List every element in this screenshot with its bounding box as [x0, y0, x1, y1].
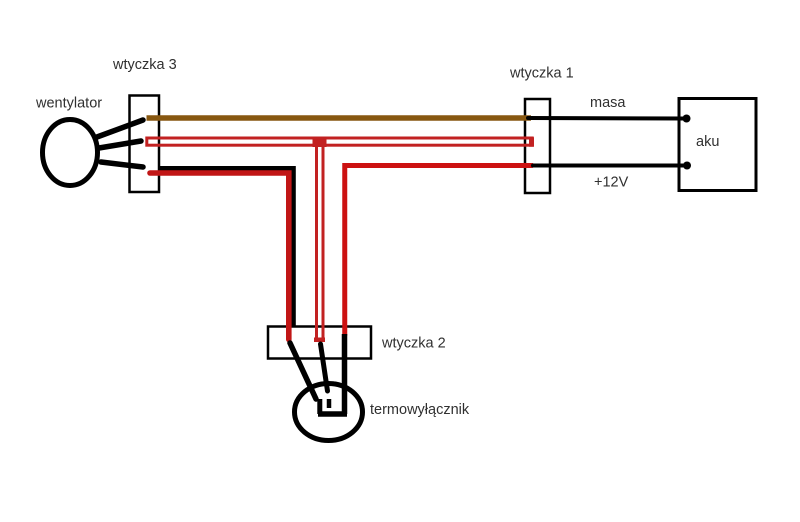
- svg-text:masa: masa: [590, 95, 626, 111]
- svg-text:wtyczka 2: wtyczka 2: [381, 336, 446, 352]
- svg-text:aku: aku: [696, 134, 719, 150]
- svg-text:wtyczka 3: wtyczka 3: [112, 57, 177, 73]
- svg-text:+12V: +12V: [594, 175, 629, 191]
- svg-text:wtyczka 1: wtyczka 1: [509, 66, 574, 82]
- svg-text:termowyłącznik: termowyłącznik: [370, 402, 470, 418]
- svg-text:wentylator: wentylator: [35, 96, 102, 112]
